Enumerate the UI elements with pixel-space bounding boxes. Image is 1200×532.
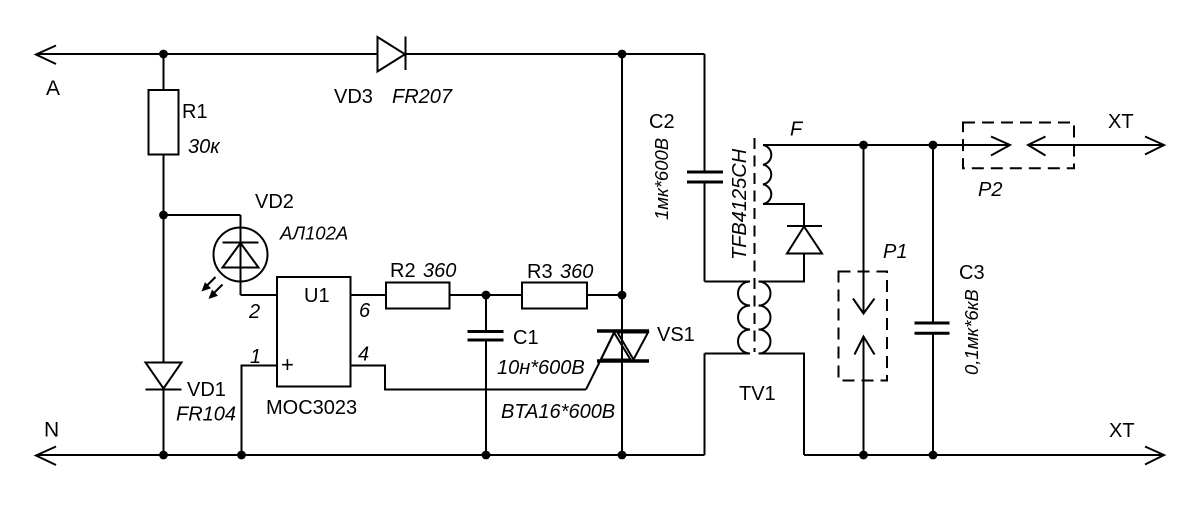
transformer TV1 feedback winding F xyxy=(763,145,771,204)
terminal arrow XT bottom xyxy=(1145,447,1164,465)
svg-text:R2: R2 xyxy=(390,260,416,282)
node: junction C3 bottom xyxy=(929,451,938,460)
svg-text:1мк*600В: 1мк*600В xyxy=(651,138,672,220)
svg-text:C2: C2 xyxy=(649,111,675,133)
svg-text:P2: P2 xyxy=(978,179,1002,201)
svg-text:C1: C1 xyxy=(513,327,539,349)
svg-text:N: N xyxy=(44,419,59,442)
wire: pin 4 lead xyxy=(351,366,587,390)
wire: C2 to primary top xyxy=(704,182,706,282)
wire: pin 6 lead xyxy=(351,294,387,296)
node: junction VD1/bottom xyxy=(159,451,168,460)
opto-triac U1 xyxy=(277,277,351,387)
svg-text:VD2: VD2 xyxy=(255,191,294,213)
svg-text:MOC3023: MOC3023 xyxy=(266,397,357,419)
svg-text:VD1: VD1 xyxy=(187,379,226,401)
wire A (top phase line) xyxy=(38,53,705,55)
svg-text:+: + xyxy=(281,352,294,377)
svg-text:1: 1 xyxy=(250,346,261,368)
capacitor C2 xyxy=(687,172,723,182)
wire: F winding bottom lead xyxy=(763,204,804,226)
connector P2 xyxy=(963,123,1164,169)
terminal arrow A xyxy=(36,46,56,65)
node: junction C1/bottom xyxy=(482,451,491,460)
wire: R2 to R3 xyxy=(450,294,523,296)
svg-text:A: A xyxy=(46,77,60,100)
svg-text:10н*600В: 10н*600В xyxy=(497,357,585,379)
resistor R2 xyxy=(386,283,450,309)
wire: R3 to VS1 line xyxy=(587,294,622,296)
svg-text:R1: R1 xyxy=(182,101,208,123)
node: junction pin1/bottom xyxy=(237,451,246,460)
node: junction R3/VS1 xyxy=(618,291,627,300)
svg-text:F: F xyxy=(790,119,804,141)
svg-text:0,1мк*6кВ: 0,1мк*6кВ xyxy=(961,289,982,375)
svg-text:U1: U1 xyxy=(304,285,330,307)
svg-text:TFB4125CH: TFB4125CH xyxy=(729,148,751,260)
node: junction top right of VD3 xyxy=(618,50,627,59)
triac VS1 xyxy=(586,331,649,390)
svg-text:XT: XT xyxy=(1109,420,1135,442)
svg-text:P1: P1 xyxy=(883,241,907,263)
arrester P1 xyxy=(839,145,888,455)
wire: vertical from top junction to R3/VS1 xyxy=(621,54,623,455)
LED VD2 xyxy=(164,215,268,295)
LED light arrows xyxy=(202,277,223,299)
node: junction R1/top wire xyxy=(159,50,168,59)
svg-text:VD3: VD3 xyxy=(334,86,373,108)
wire: R1 branch vertical xyxy=(163,54,165,455)
capacitor C1 xyxy=(468,295,504,455)
node: junction C3 top xyxy=(929,141,938,150)
node: junction P1 top xyxy=(859,141,868,150)
svg-text:BTA16*600В: BTA16*600В xyxy=(501,401,615,423)
resistor R3 xyxy=(522,283,587,309)
terminal arrow N xyxy=(36,447,56,466)
svg-text:6: 6 xyxy=(359,300,371,322)
node: junction VD2 branch xyxy=(159,211,168,220)
transformer TV1 secondary winding xyxy=(759,282,805,456)
wire: top right corner down to C2 xyxy=(704,54,706,172)
diode VD3 xyxy=(378,37,406,72)
wire: pin 1 lead xyxy=(242,366,278,456)
wire: diode to secondary top lead xyxy=(759,254,805,282)
diode VD1 xyxy=(146,363,182,390)
node: junction VS1/bottom xyxy=(618,451,627,460)
svg-text:2: 2 xyxy=(248,301,260,323)
transformer TV1 core xyxy=(754,138,756,352)
svg-text:FR104: FR104 xyxy=(176,404,236,426)
svg-text:XT: XT xyxy=(1108,111,1134,133)
node: junction P1 bottom xyxy=(859,451,868,460)
transformer TV1 primary winding xyxy=(705,282,751,456)
svg-text:30к: 30к xyxy=(188,136,221,158)
svg-text:360: 360 xyxy=(560,261,593,283)
capacitor C3 xyxy=(915,145,950,455)
svg-text:FR207: FR207 xyxy=(392,86,453,108)
resistor R1 xyxy=(149,90,179,155)
wire: pin 2 lead xyxy=(241,294,278,296)
wire N (bottom left line) xyxy=(38,454,705,456)
wire: bottom right secondary line xyxy=(804,454,1164,456)
svg-text:АЛ102А: АЛ102А xyxy=(279,223,348,244)
svg-text:VS1: VS1 xyxy=(657,324,695,346)
terminal arrow XT top xyxy=(1145,137,1164,155)
diode secondary rectifier xyxy=(787,226,822,254)
svg-text:4: 4 xyxy=(358,344,369,366)
svg-text:TV1: TV1 xyxy=(739,383,776,405)
wire F net (top secondary line) xyxy=(763,144,1010,146)
svg-text:360: 360 xyxy=(423,260,456,282)
svg-text:R3: R3 xyxy=(527,261,553,283)
node: junction C1 top xyxy=(482,291,491,300)
svg-text:C3: C3 xyxy=(959,262,985,284)
